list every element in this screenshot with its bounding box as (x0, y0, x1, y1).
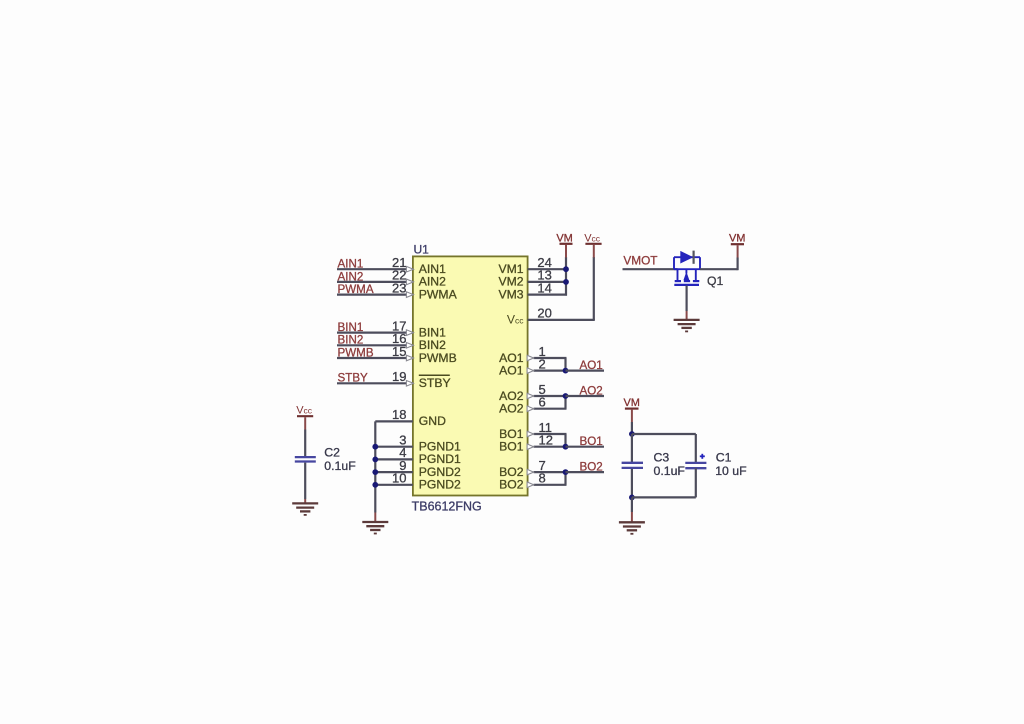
wire VM to C3 junction (631, 422, 633, 434)
svg-text:BIN1: BIN1 (338, 321, 364, 334)
svg-text:Q1: Q1 (707, 274, 723, 288)
svg-text:VM: VM (729, 233, 746, 245)
svg-text:VM: VM (623, 397, 640, 409)
junction dots on GND bus (372, 444, 378, 450)
wire net BIN1 to pin 17 (337, 332, 413, 334)
pin 17 input arrow (406, 330, 413, 336)
wire GND vertical bus (374, 421, 376, 512)
pin 8 output arrow (527, 482, 534, 488)
pin 5 output arrow (527, 393, 534, 399)
svg-text:STBY: STBY (419, 376, 451, 390)
wire net AO1 stub (566, 370, 605, 372)
svg-text:BIN2: BIN2 (338, 334, 364, 347)
svg-text:C2: C2 (324, 446, 340, 460)
svg-text:PWMB: PWMB (419, 351, 457, 365)
ground symbol for PGND bus (362, 522, 388, 534)
wire Q1 drain to VM (700, 268, 738, 270)
svg-text:18: 18 (392, 407, 406, 422)
wire pin 8 BO2 (534, 484, 567, 486)
svg-text:VM3: VM3 (498, 287, 523, 301)
svg-text:BO1: BO1 (580, 435, 603, 448)
svg-text:15: 15 (392, 344, 406, 359)
svg-text:0.1uF: 0.1uF (324, 459, 356, 473)
svg-text:BO2: BO2 (580, 461, 603, 474)
wire net AIN2 to pin 22 (337, 281, 413, 283)
wire pin 4 PGND1 (375, 458, 413, 460)
wire Vcc to C2 (304, 430, 306, 457)
wire pin 9 PGND2 (375, 471, 413, 473)
wire net PWMB to pin 15 (337, 357, 413, 359)
pin 23 input arrow (406, 292, 413, 298)
svg-text:19: 19 (392, 369, 406, 384)
wire Vcc vertical (593, 257, 595, 320)
pin 11 output arrow (527, 431, 534, 437)
wire pin 2 AO1 (534, 370, 567, 372)
wire net BO1 stub (566, 446, 605, 448)
svg-text:VMOT: VMOT (623, 254, 657, 268)
svg-text:AIN2: AIN2 (338, 270, 364, 283)
wire pin 24 VM1 (528, 268, 567, 270)
junction dot AO1 (563, 368, 569, 374)
junction dot BO2 (563, 469, 569, 475)
svg-text:8: 8 (539, 471, 546, 486)
svg-text:0.1uF: 0.1uF (654, 464, 686, 478)
ground symbol for C3/C1 (619, 522, 645, 534)
pin 22 input arrow (406, 279, 413, 285)
svg-text:10 uF: 10 uF (715, 464, 747, 478)
junction dot VM row 24 (563, 266, 569, 272)
svg-text:PWMA: PWMA (419, 287, 458, 301)
svg-text:AO2: AO2 (499, 402, 524, 416)
wire net STBY to pin 19 (337, 382, 413, 384)
pin 2 output arrow (527, 368, 534, 374)
capacitor C3 (622, 462, 643, 464)
svg-text:PWMB: PWMB (338, 346, 374, 359)
wire C1 bottom branch (695, 468, 697, 497)
svg-text:Vcc: Vcc (507, 313, 524, 327)
ground symbol for C2 (292, 503, 318, 515)
wire pin 14 VM3 (528, 294, 567, 296)
junction dot AO2 (563, 393, 569, 399)
wire C3 top (631, 434, 633, 462)
ground stub (red) (374, 513, 376, 522)
wire vertical joining AO2 pins (564, 396, 566, 409)
wire pin 10 PGND2 (375, 484, 413, 486)
IC U1 body (413, 256, 528, 495)
svg-text:BO1: BO1 (499, 440, 524, 454)
pin 7 output arrow (527, 469, 534, 475)
svg-text:BO2: BO2 (499, 478, 524, 492)
svg-text:GND: GND (419, 414, 446, 428)
wire vertical joining BO2 pins (564, 472, 566, 485)
junction dot BO1 (563, 444, 569, 450)
svg-text:AIN1: AIN1 (338, 258, 364, 271)
svg-text:2: 2 (539, 356, 546, 371)
svg-text:23: 23 (392, 280, 406, 295)
svg-text:AO1: AO1 (499, 363, 524, 377)
junction dot C3 top (629, 431, 635, 437)
svg-text:STBY: STBY (338, 372, 369, 385)
wire net BIN2 to pin 16 (337, 344, 413, 346)
svg-text:C1: C1 (716, 450, 732, 464)
wire pin 6 AO2 (534, 408, 567, 410)
svg-text:PGND2: PGND2 (419, 478, 461, 492)
pin 21 input arrow (406, 266, 413, 272)
svg-text:14: 14 (537, 280, 551, 295)
wire vertical joining BO1 pins (564, 434, 566, 447)
wire VMOT to Q1 source (623, 268, 678, 270)
pin 16 input arrow (406, 343, 413, 349)
wire pin 7 BO2 (534, 471, 567, 473)
wire C3 bottom (631, 469, 633, 498)
svg-text:12: 12 (539, 433, 553, 448)
svg-text:6: 6 (539, 395, 546, 410)
wire pin 1 AO1 (534, 357, 567, 359)
wire pin 5 AO2 (534, 395, 567, 397)
C1 plus sign (700, 455, 705, 457)
wire Q1 gate to ground (685, 286, 687, 311)
wire net BO2 stub (566, 471, 605, 473)
pin 12 output arrow (527, 444, 534, 450)
wire net PWMA to pin 23 (337, 294, 413, 296)
svg-text:10: 10 (392, 471, 406, 486)
wire VM vertical (565, 257, 567, 296)
capacitor C1 polarized (685, 462, 706, 464)
pin 19 input arrow (406, 381, 413, 387)
ground symbol for Q1 gate (674, 320, 700, 332)
wire net AIN1 to pin 21 (337, 268, 413, 270)
wire C1 top branch (632, 433, 696, 435)
svg-text:C3: C3 (654, 451, 670, 465)
wire pin 18 GND (375, 420, 413, 422)
wire net AO2 stub (566, 395, 605, 397)
junction dot C3 bottom (629, 495, 635, 501)
svg-text:TB6612FNG: TB6612FNG (412, 500, 482, 514)
svg-text:20: 20 (537, 306, 551, 321)
transistor Q1 (P-MOSFET) (674, 251, 700, 285)
pin 15 input arrow (406, 355, 413, 361)
svg-text:PWMA: PWMA (338, 283, 374, 296)
wire to ground (red stub) (631, 497, 633, 512)
svg-text:AO1: AO1 (580, 359, 603, 372)
wire pin 20 Vcc (528, 319, 595, 321)
wire pin 13 VM2 (528, 281, 567, 283)
wire pin 12 BO1 (534, 446, 567, 448)
wire pin 11 BO1 (534, 433, 567, 435)
svg-text:AO2: AO2 (580, 384, 603, 397)
junction dot VM row 13 (563, 279, 569, 285)
wire vertical joining AO1 pins (564, 358, 566, 371)
svg-text:U1: U1 (414, 243, 430, 257)
pin 1 output arrow (527, 355, 534, 361)
pin 6 output arrow (527, 406, 534, 412)
wire pin 3 PGND1 (375, 446, 413, 448)
capacitor C2 (295, 456, 316, 458)
wire C2 to ground (304, 463, 306, 499)
svg-text:Vcc: Vcc (296, 404, 313, 416)
